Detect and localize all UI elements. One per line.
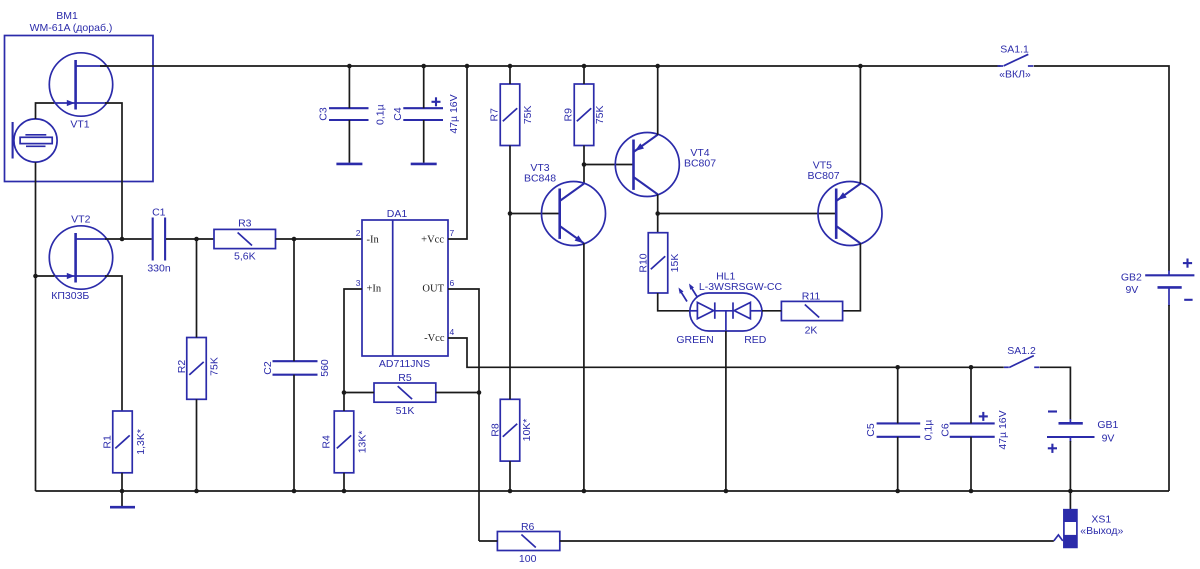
svg-text:GREEN: GREEN [676,334,713,346]
GB1 labels [1097,419,1118,445]
GB2 minus sign [1184,299,1192,301]
resistor R11 [781,301,842,320]
battery GB2 [1145,271,1194,307]
DA1 labels [379,208,430,370]
wire VT2 drain to C1 [105,238,152,240]
svg-text:AD711JNS: AD711JNS [379,358,430,370]
wire bottom rail [36,490,1170,492]
node R1 ground rail [120,489,125,494]
svg-text:560: 560 [319,359,331,377]
transistor VT1 [49,53,112,116]
R9 labels [562,105,606,124]
C2 labels [262,359,331,377]
connector XS1 chevron [1054,535,1063,541]
node VT4 emitter top rail [655,64,660,69]
wire R9 down to VT3 collector [583,146,585,184]
battery GB1 [1047,419,1095,442]
wire C2 top [293,239,295,361]
wire VT4 base [584,164,634,166]
wire R4 top [343,393,345,412]
svg-text:6: 6 [450,278,455,288]
capacitor C6 [950,423,995,436]
svg-text:1,3K*: 1,3K* [135,429,147,455]
svg-text:C4: C4 [392,107,404,121]
svg-text:+In: +In [367,284,382,295]
svg-text:R8: R8 [489,423,501,437]
node VT3 base / R7 / R8 [508,211,513,216]
svg-text:R10: R10 [637,253,649,272]
node VT1 source / VT2 drain / C1 [120,237,125,242]
svg-text:-Vcc: -Vcc [424,333,445,344]
wire R5 right [436,392,479,394]
wire C2 bottom [293,375,295,491]
svg-text:0,1µ: 0,1µ [374,104,386,125]
svg-text:BC807: BC807 [808,170,840,182]
svg-text:100: 100 [519,553,537,565]
node C6 supply line [969,365,974,370]
wire R11 left [762,310,781,312]
C3 labels [317,104,386,125]
C5 labels [865,420,935,441]
switch SA1.1 [998,54,1034,66]
resistor R3 [214,229,276,248]
transistor VT4 [615,133,679,197]
transistor VT2 [49,226,112,289]
svg-text:75K: 75K [594,105,606,124]
HL1 labels [676,271,782,346]
R5 labels [396,372,415,417]
wire XS1 top [1069,491,1071,510]
node VT4 collector / R10 / VT5 base [655,211,660,216]
microphone BM1 box [5,36,154,182]
wire SA1.2 to GB1 [1040,367,1071,419]
svg-text:330n: 330n [147,262,171,274]
svg-text:R3: R3 [238,218,252,230]
svg-text:+Vcc: +Vcc [421,234,444,245]
svg-text:SA1.2: SA1.2 [1007,345,1036,357]
wire R7 top [509,66,511,84]
svg-text:51K: 51K [396,405,415,417]
svg-text:BC848: BC848 [524,173,556,185]
node +In / R5 / R4 [342,390,347,395]
wire HL1 cathode to rail [725,331,727,491]
svg-text:GB2: GB2 [1121,272,1142,284]
svg-text:C6: C6 [939,423,951,437]
svg-text:47µ 16V: 47µ 16V [997,410,1009,449]
wire R5 left [344,392,374,394]
resistor R2 [187,338,207,400]
svg-text:3: 3 [356,278,361,288]
svg-text:2K: 2K [805,324,818,336]
node C3 top rail [347,64,352,69]
C6 plus sign [979,412,988,421]
GB1 minus sign [1048,410,1057,412]
resistor R8 [500,399,520,461]
svg-text:C1: C1 [152,207,166,219]
wire VT5 collector to R11 [843,243,861,310]
resistor R1 [113,411,133,473]
node C1 / R2 / R3 [194,237,199,242]
C6 labels [939,410,1009,449]
svg-text:R4: R4 [320,435,332,449]
wire capsule to VT1 gate [36,103,55,119]
resistor R4 [334,411,354,473]
svg-text:C2: C2 [262,361,274,375]
wire VT1 source to VT2 drain [105,103,122,239]
wire R6 left [479,540,497,542]
R10 labels [637,253,681,272]
wire R7 down to R8 [509,146,511,400]
node GB1 / XS1 ground rail [1068,489,1073,494]
svg-text:R5: R5 [398,372,412,384]
node C4 top rail [421,64,426,69]
svg-text:WM-61A (дораб.): WM-61A (дораб.) [30,22,113,34]
wire top rail right of SA1.1 [1034,66,1169,271]
LED HL1 [690,293,762,331]
wire VT4 collector to VT5 base [658,213,837,215]
svg-text:47µ 16V: 47µ 16V [448,94,460,133]
svg-text:15K: 15K [669,254,681,273]
wire VT2 source down to R1 [105,276,122,411]
resistor R6 [497,532,559,551]
HL1 light arrows [679,284,698,302]
svg-text:R1: R1 [101,435,113,449]
DA1 pin numbers [356,228,455,337]
wire top supply rail [100,65,1001,67]
GB2 plus sign [1183,259,1192,268]
svg-text:75K: 75K [208,357,220,376]
wire R10 to HL1 [658,293,690,311]
svg-text:OUT: OUT [422,284,444,295]
R8 labels [489,419,533,442]
node HL1 ground rail [724,489,729,494]
resistor R10 [648,233,668,293]
svg-text:-In: -In [367,234,380,245]
wire R3 to DA1 [276,238,363,240]
node R8 ground rail [508,489,513,494]
VT3 labels [524,162,556,185]
wire R2 top [196,239,198,338]
VT4 labels [684,147,716,170]
wire VT4 collector [657,194,659,232]
BM1 label [30,10,113,34]
C1 labels [147,207,171,275]
wire capsule down left rail [35,162,37,491]
svg-text:2: 2 [356,228,361,238]
svg-text:R9: R9 [562,108,574,122]
svg-text:VT1: VT1 [70,118,89,130]
resistor R9 [574,84,594,146]
node R3 / C2 / DA1 -In [292,237,297,242]
VT2 label [51,213,90,302]
wire C5 top [897,367,899,423]
VT5 labels [808,160,840,183]
svg-text:BM1: BM1 [56,10,78,22]
XS1 labels [1080,514,1123,538]
R1 labels [101,429,146,455]
svg-text:DA1: DA1 [387,208,408,220]
GB2 labels [1121,272,1142,297]
C4 plus sign [432,97,441,106]
svg-text:9V: 9V [1125,284,1138,296]
node VT3 emitter ground rail [582,489,587,494]
capacitor C1 [153,218,165,261]
node R2 ground rail [194,489,199,494]
transistor VT5 [818,182,882,246]
resistor R7 [500,84,520,146]
svg-text:VT2: VT2 [71,213,90,225]
svg-text:13K*: 13K* [356,431,368,454]
svg-text:R7: R7 [488,108,500,122]
R6 labels [519,521,537,565]
wire GB2 to bottom rail [1168,305,1170,491]
wire R1 to rail [121,473,123,491]
wire +In pin 3 [344,289,362,393]
capacitor C3 [329,108,369,120]
node +Vcc top rail [465,64,470,69]
wire C4 bottom [423,120,425,163]
GB1 plus sign [1048,444,1057,453]
node C2 ground rail [292,489,297,494]
wire R9 top [583,66,585,84]
node R9 top rail [582,64,587,69]
capacitor C5 [877,423,921,436]
svg-text:7: 7 [450,228,455,238]
wire VT3 base [510,213,560,215]
node C6 ground rail [969,489,974,494]
svg-text:BC807: BC807 [684,158,716,170]
wire C6 bottom [970,437,972,491]
node R4 ground rail [342,489,347,494]
svg-text:«Выход»: «Выход» [1080,525,1123,537]
wire GB1 to bottom rail [1069,441,1071,491]
node C5 supply line [895,365,900,370]
svg-text:4: 4 [450,327,455,337]
node OUT / R5 / R6 [477,390,482,395]
svg-text:9V: 9V [1102,432,1115,444]
switch SA1.2 [1004,356,1039,368]
wire VT3 emitter to rail [583,243,585,491]
svg-text:10K*: 10K* [521,419,533,442]
svg-text:R11: R11 [802,290,821,302]
C4 labels [392,94,460,133]
SA1.1 labels [999,44,1031,81]
node R7 top rail [508,64,513,69]
svg-text:GB1: GB1 [1097,419,1118,431]
ground under C3 [336,163,362,166]
wire C6 top [970,367,972,423]
R4 labels [320,431,368,454]
electret capsule [13,119,58,162]
wire VT4 emitter to rail [657,66,659,135]
op-amp DA1 [362,220,448,356]
wire R6 right to XS1 [560,540,1054,542]
svg-text:R6: R6 [521,521,535,533]
connector XS1 [1064,510,1077,548]
wire R8 bottom [509,461,511,491]
node C5 ground rail [895,489,900,494]
svg-text:L-3WSRSGW-CC: L-3WSRSGW-CC [699,281,783,293]
R2 labels [176,357,221,376]
R7 labels [488,105,534,124]
wire C1 to R3 [166,238,214,240]
wire -Vcc pin 4 to supply line [448,338,1004,367]
node VT4 base / R9 / VT3 collector [582,162,587,167]
wire R4 bottom [343,473,345,491]
R3 labels [234,218,256,263]
wire R2 bottom [196,399,198,491]
transistor VT3 [542,182,606,246]
node VT2 gate [33,274,38,279]
wire C5 bottom [897,437,899,491]
resistor R5 [374,383,436,402]
DA1 pin names [367,234,445,344]
svg-text:SA1.1: SA1.1 [1000,44,1029,56]
ground under R1 [110,491,135,507]
wire VT5 emitter to rail [859,66,861,184]
node VT5 emitter top rail [858,64,863,69]
wire +Vcc pin 7 to top rail [448,66,467,239]
wire VT2 gate branch [36,275,55,277]
wire OUT pin 6 down to R6 [448,289,479,541]
wire C3 top [348,66,350,108]
svg-text:RED: RED [744,334,767,346]
svg-text:«ВКЛ»: «ВКЛ» [999,69,1031,81]
wire C3 bottom [348,120,350,163]
ground under C4 [411,163,437,166]
wire C4 top [423,66,425,108]
capacitor C2 [273,361,318,375]
svg-text:R2: R2 [176,360,188,374]
svg-text:XS1: XS1 [1091,514,1111,526]
svg-text:0,1µ: 0,1µ [923,420,935,441]
capacitor C4 [403,108,443,120]
svg-text:C3: C3 [317,107,329,121]
svg-text:5,6K: 5,6K [234,251,256,263]
svg-text:КП303Б: КП303Б [51,290,89,302]
svg-text:75K: 75K [522,105,534,124]
svg-text:C5: C5 [865,423,877,437]
R11 labels [802,290,821,336]
